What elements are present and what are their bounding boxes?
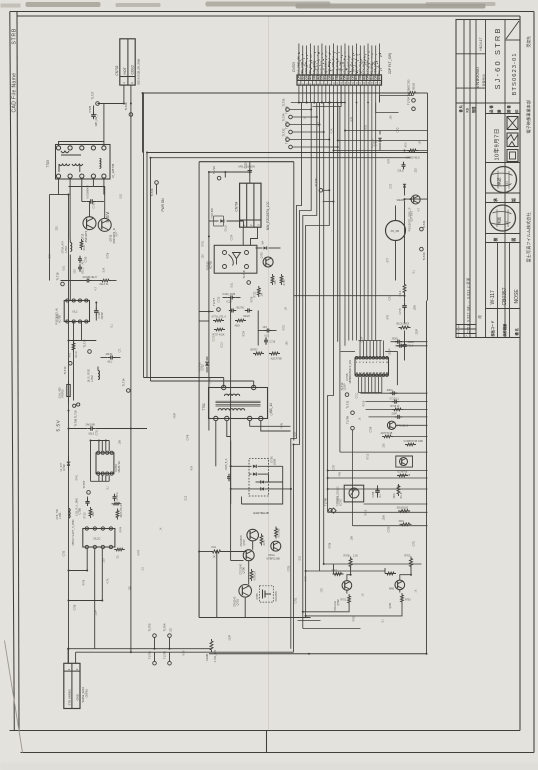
svg-text:10M: 10M <box>351 536 354 541</box>
capacitor C705 <box>87 497 89 500</box>
svg-text:TL7812_2S1813: TL7812_2S1813 <box>337 486 340 504</box>
svg-text:220: 220 <box>415 168 418 173</box>
test point TL707 <box>87 491 91 495</box>
svg-text:R7E: R7E <box>295 431 298 436</box>
fuse P5703 <box>68 381 70 385</box>
svg-text:E41173EL1B: E41173EL1B <box>254 511 269 515</box>
svg-text:C744: C744 <box>271 409 274 415</box>
svg-text:TL718: TL718 <box>242 270 246 278</box>
wires T703 secondary down <box>58 178 60 194</box>
svg-text:400V: 400V <box>281 423 284 429</box>
wire center block bottom <box>198 552 200 618</box>
CN703 pin numbers <box>299 81 382 84</box>
svg-text:M62B73H: M62B73H <box>117 461 121 473</box>
junction dots various <box>208 311 210 313</box>
svg-text:C723: C723 <box>218 296 221 302</box>
title block check stamp square 3 <box>507 150 518 162</box>
svg-text:TL727: TL727 <box>91 91 95 99</box>
svg-text:Y10 M76B: Y10 M76B <box>397 472 408 474</box>
svg-text:MW_250/300V: MW_250/300V <box>239 166 256 169</box>
svg-text:MA: MA <box>262 241 265 245</box>
wire IC706 loop right <box>385 352 397 386</box>
capacitor C730 <box>78 256 82 264</box>
row resistors A77H <box>213 319 224 322</box>
svg-text:A01/89 IELH: A01/89 IELH <box>83 276 97 279</box>
resistor R pair cell2 <box>410 557 413 569</box>
transistor Q706 <box>243 550 254 561</box>
svg-text:TL715: TL715 <box>83 339 87 347</box>
output cell 2 <box>384 568 386 574</box>
svg-text:NW_FZ02974_100: NW_FZ02974_100 <box>266 202 270 231</box>
row R727 <box>214 328 225 331</box>
CN703 strip top row marks <box>297 74 382 79</box>
svg-text:C714: C714 <box>361 336 364 342</box>
svg-text:TL709: TL709 <box>346 416 350 424</box>
svg-text:CN701: CN701 <box>85 689 89 698</box>
wires inside center block <box>230 298 232 552</box>
svg-text:0.033B R71B 100K: 0.033B R71B 100K <box>404 441 424 443</box>
paper edge bottom-left diagonal <box>5 641 23 753</box>
svg-text:1K: 1K <box>359 417 362 420</box>
svg-text:TL732: TL732 <box>282 128 286 136</box>
svg-text:220P: 220P <box>416 329 419 335</box>
test point TL711 <box>351 411 355 415</box>
svg-text:T701: T701 <box>202 403 206 410</box>
svg-text:C703: C703 <box>288 565 291 571</box>
resistor R701 <box>72 341 75 352</box>
wire Q704 emitter down <box>306 604 402 616</box>
svg-text:1: 1 <box>458 334 460 338</box>
svg-text:TL707: TL707 <box>82 480 86 488</box>
svg-text:100K: 100K <box>383 515 386 521</box>
assorted value labels for scan density <box>49 115 422 656</box>
wires CN704 pins down <box>242 227 244 245</box>
wire CN701 pin1 up <box>67 649 69 664</box>
svg-text:EN80060: EN80060 <box>475 67 480 89</box>
svg-text:60L3: 60L3 <box>89 433 95 436</box>
svg-text:16_R_PE30: 16_R_PE30 <box>88 368 91 382</box>
transistor Q711 <box>387 421 395 429</box>
bridge diodes <box>231 465 252 467</box>
svg-text:DTA114E: DTA114E <box>334 601 337 611</box>
wire T703 top to CN702 <box>59 142 104 146</box>
svg-text:1N4B_B_A: 1N4B_B_A <box>225 458 228 470</box>
capacitor C708 <box>377 485 379 488</box>
svg-text:2200P: 2200P <box>344 383 347 390</box>
zener pair row y150 <box>407 149 418 152</box>
capacitors column right mid2 <box>361 392 428 394</box>
test point TL721 <box>420 227 424 231</box>
diode D704 cell <box>209 220 219 222</box>
svg-text:CP3A_470: CP3A_470 <box>61 240 65 253</box>
svg-text:C1B_730: C1B_730 <box>56 508 59 519</box>
capacitor C726 <box>95 303 97 309</box>
svg-text:R70B: R70B <box>344 555 350 558</box>
inductor L702 <box>97 367 99 371</box>
rectifier left rail <box>230 441 232 505</box>
svg-text:470P: 470P <box>174 413 177 419</box>
svg-text:M4B: M4B <box>389 588 394 591</box>
svg-text:1000P: 1000P <box>389 348 392 355</box>
svg-text:4.7K: 4.7K <box>331 128 334 133</box>
svg-text:3.3K: 3.3K <box>103 267 106 272</box>
test points TL708 TL710 <box>73 404 76 407</box>
svg-text:[MW]: [MW] <box>273 459 276 465</box>
svg-text:C7Q: C7Q <box>397 127 400 132</box>
connector CN702 <box>120 39 135 85</box>
svg-text:ALE R73B: ALE R73B <box>271 358 283 361</box>
svg-text:C736: C736 <box>74 604 77 610</box>
svg-text:LED_CHG_3: LED_CHG_3 <box>335 58 339 74</box>
resistor R722 <box>257 286 260 297</box>
svg-text:M51977LAPY_S_BM0: M51977LAPY_S_BM0 <box>71 519 75 546</box>
svg-text:0.22: 0.22 <box>185 495 188 500</box>
resistor R709 <box>346 590 348 593</box>
wire bundle bottom bends <box>303 628 361 630</box>
bottom rail main <box>209 653 427 655</box>
transistor Q710 pair <box>396 456 413 467</box>
transistor Q702 <box>342 581 352 591</box>
diode pair D710 <box>403 184 406 187</box>
diode D713 <box>256 247 263 249</box>
test point TL714 <box>127 389 131 393</box>
row TL717 TL716 <box>217 308 221 312</box>
transformer T703 <box>56 145 111 180</box>
svg-text:F1_0P7: F1_0P7 <box>60 462 63 471</box>
svg-text:220: 220 <box>56 226 59 231</box>
svg-text:1000P: 1000P <box>100 312 104 320</box>
title block bottom field dividers <box>497 243 499 338</box>
svg-text:R721: R721 <box>283 324 286 330</box>
capacitor col y345 <box>402 342 407 350</box>
svg-text:C739: C739 <box>92 202 96 209</box>
svg-text:1T0: 1T0 <box>321 588 324 593</box>
wire right rail <box>427 93 429 301</box>
svg-text:電子映像事業本部: 電子映像事業本部 <box>525 100 532 134</box>
svg-text:0.33_R_K_1600: 0.33_R_K_1600 <box>76 497 79 516</box>
svg-text:STRB: STRB <box>11 28 17 45</box>
svg-text:図: 図 <box>511 238 516 242</box>
svg-text:GND: GND <box>75 694 79 700</box>
wire CN702 pin2 rail down <box>130 85 132 652</box>
svg-text:R718 1K: R718 1K <box>391 406 400 408</box>
bundle staircase wire L2 <box>294 103 312 653</box>
test point TL729 mid bundle <box>319 189 323 193</box>
frame outer bottom <box>21 752 535 754</box>
svg-text:C71B: C71B <box>399 308 402 314</box>
svg-text:10M: 10M <box>119 440 122 445</box>
connector CN703 strip <box>297 75 382 85</box>
title block round approval stamp 2 <box>490 205 516 231</box>
svg-text:B9702: B9702 <box>251 349 259 352</box>
svg-text:W-117: W-117 <box>490 290 496 304</box>
svg-text:220: 220 <box>74 269 77 274</box>
wire pair mid horizontals <box>147 152 428 154</box>
test point TL722 <box>217 176 221 180</box>
svg-text:R713: R713 <box>367 453 370 459</box>
bundle wire L6 <box>323 103 325 565</box>
svg-text:R70C: R70C <box>405 555 411 558</box>
svg-text:A076 5C1B: A076 5C1B <box>381 432 393 435</box>
node junction top wire <box>142 92 144 94</box>
xenon tube circle <box>386 221 406 241</box>
svg-text:Q705: Q705 <box>256 593 259 600</box>
svg-text:R70A 1A: R70A 1A <box>254 571 257 581</box>
svg-text:SW_COM_1: SW_COM_1 <box>300 58 304 74</box>
wires Q cluster <box>216 552 218 618</box>
diode symbol near bundle <box>331 508 336 513</box>
svg-text:R7K: R7K <box>57 313 60 318</box>
wires below IC701 <box>86 549 88 571</box>
svg-text:1M: 1M <box>261 293 264 296</box>
svg-text:C702: C702 <box>295 597 298 603</box>
resistor B9702 row <box>253 352 264 355</box>
title block check stamp square 2 <box>507 133 518 147</box>
svg-text:R7R: R7R <box>388 158 391 163</box>
resistor R top right <box>407 92 418 95</box>
photocoupler IC702 <box>214 245 257 273</box>
svg-text:T703: T703 <box>46 160 50 167</box>
svg-text:IC13: IC13 <box>221 342 224 348</box>
svg-text:R731: R731 <box>202 240 205 246</box>
output cell 1 box <box>333 564 335 574</box>
svg-text:1M: 1M <box>285 307 288 310</box>
junction dots on CN703 stubs <box>298 102 300 104</box>
svg-text:R701: R701 <box>341 600 347 602</box>
svg-text:TL729: TL729 <box>314 178 318 186</box>
resistor R711 <box>199 551 210 553</box>
svg-text:2SK2605: 2SK2605 <box>275 591 278 602</box>
svg-text:TL704: TL704 <box>163 623 167 631</box>
svg-text:0.033_3935: 0.033_3935 <box>223 293 236 296</box>
capacitor C715b <box>264 337 268 345</box>
svg-text:6EL3: 6EL3 <box>82 267 85 273</box>
bundle wires to IC706 <box>348 103 350 341</box>
bundle staircase wire L4 <box>306 103 330 618</box>
svg-text:DATA_FLT: DATA_FLT <box>319 61 323 74</box>
svg-text:1K: 1K <box>304 116 307 119</box>
svg-text:10K: 10K <box>390 115 393 120</box>
bundle wire L9 <box>340 85 341 452</box>
svg-text:AE'U: AE'U <box>405 142 408 148</box>
wire top rail down from CN702 junction <box>142 93 144 153</box>
test points TL723 TL724 <box>412 99 416 103</box>
svg-text:承認: 承認 <box>496 178 502 186</box>
svg-text:C733: C733 <box>63 550 66 556</box>
svg-text:認: 認 <box>511 198 516 202</box>
svg-text:R744: R744 <box>120 526 123 532</box>
wire bundle below CN703 <box>298 85 300 102</box>
svg-text:SEL_DATA: SEL_DATA <box>312 60 316 74</box>
svg-text:D703: D703 <box>202 364 205 371</box>
title block row lines stamp columns <box>486 113 521 115</box>
wire third vertical <box>143 93 145 378</box>
svg-text:B1C8 2AEX: B1C8 2AEX <box>397 323 410 326</box>
svg-text:0.047: 0.047 <box>209 377 212 384</box>
svg-text:受渡先: 受渡先 <box>526 36 531 48</box>
resistor R712 <box>275 527 278 539</box>
svg-text:TLP620: TLP620 <box>206 261 210 271</box>
svg-text:TL724: TL724 <box>407 97 411 105</box>
svg-text:C708: C708 <box>372 491 375 497</box>
svg-text:2.5A_429: 2.5A_429 <box>58 387 62 399</box>
svg-text:I0L2C: I0L2C <box>94 537 101 541</box>
svg-text:C7N: C7N <box>317 121 320 126</box>
svg-text:SEG_DAT_1: SEG_DAT_1 <box>342 58 346 74</box>
title block row lines narrow columns <box>456 53 486 55</box>
svg-text:LP4131B_0: LP4131B_0 <box>396 426 409 428</box>
svg-text:CB0357: CB0357 <box>502 287 508 305</box>
svg-text:A77H_L7B_4: A77H_L7B_4 <box>212 316 227 319</box>
row R71 X1 <box>397 474 408 477</box>
transistor Q704 <box>395 580 405 590</box>
resistor right of Q707 <box>260 534 263 546</box>
svg-text:C717: C717 <box>213 335 216 341</box>
svg-text:1M0: 1M0 <box>92 511 95 516</box>
svg-text:C713 0.1: C713 0.1 <box>390 398 400 400</box>
wire bottom horizontal 648 <box>69 648 212 650</box>
svg-text:R707: R707 <box>332 569 338 572</box>
svg-text:C748: C748 <box>187 434 190 440</box>
long wire y295 block to right column <box>294 295 405 297</box>
svg-text:TL714: TL714 <box>122 378 126 386</box>
resistor R713 <box>89 507 92 518</box>
title block outline <box>456 20 520 338</box>
resistor R707 <box>333 573 344 576</box>
svg-text:C707: C707 <box>333 464 336 470</box>
test point circles left of bundle <box>286 108 290 112</box>
svg-text:TL708: TL708 <box>324 498 328 506</box>
svg-text:PM01BEPT_100RL1P: PM01BEPT_100RL1P <box>409 207 412 231</box>
row 0.033B R71B <box>405 443 416 446</box>
wire row C719 <box>61 280 85 282</box>
resistor col y327 <box>399 326 411 329</box>
svg-text:番 丸: 番 丸 <box>458 104 463 113</box>
svg-text:管理: 管理 <box>471 106 476 113</box>
svg-text:C711: C711 <box>356 392 359 398</box>
svg-text:BN: BN <box>377 75 381 79</box>
capacitor col y306 <box>402 303 407 311</box>
svg-text:C0LD: C0LD <box>398 170 404 173</box>
svg-text:22P FLT_SW|: 22P FLT_SW| <box>388 53 392 74</box>
test point TL719 <box>61 282 65 286</box>
test point TL720 <box>420 247 424 251</box>
CN703 label band texture ticks <box>298 52 382 73</box>
svg-text:M7BP1130B: M7BP1130B <box>267 557 281 560</box>
svg-text:X001: X001 <box>399 521 405 523</box>
svg-text:富士写真フイルム株式会社: 富士写真フイルム株式会社 <box>525 212 532 262</box>
svg-text:機 名: 機 名 <box>514 328 519 335</box>
test point TL712 <box>345 393 349 397</box>
svg-text:R741: R741 <box>76 474 79 480</box>
svg-text:1K: 1K <box>362 593 365 596</box>
resistor R col y288 <box>403 283 406 295</box>
svg-text:C0LB: C0LB <box>225 225 228 232</box>
svg-text:R747: R747 <box>138 549 141 555</box>
svg-text:IC706: IC706 <box>345 373 349 380</box>
svg-text:0.01: 0.01 <box>299 555 302 560</box>
svg-text:20K: 20K <box>274 280 277 285</box>
IC705 regulator <box>64 301 89 322</box>
svg-text:10P_CH_F: 10P_CH_F <box>94 113 98 126</box>
svg-text:1.75A_429: 1.75A_429 <box>213 649 217 662</box>
svg-text:5.5V: 5.5V <box>56 419 62 431</box>
wire horizontals y563 y570 <box>324 563 422 565</box>
resistor R717 <box>382 435 393 438</box>
svg-text:CN704: CN704 <box>235 201 239 211</box>
svg-text:品 番: 品 番 <box>489 105 494 113</box>
bundle wire L5 <box>319 103 321 572</box>
connector CN703 pin dividers <box>300 75 302 85</box>
svg-text:R722: R722 <box>254 291 257 298</box>
bundle jog horizontals <box>299 102 345 104</box>
capacitor C725 <box>93 106 95 113</box>
svg-text:CAD File Name: CAD File Name <box>11 73 17 113</box>
IC707 regulator box <box>344 485 364 502</box>
svg-text:COLD: COLD <box>131 65 135 75</box>
svg-text:TL717: TL717 <box>212 298 216 306</box>
test point TL727 <box>96 102 100 106</box>
svg-text:0.01: 0.01 <box>231 282 234 287</box>
svg-text:0.01: 0.01 <box>265 335 270 338</box>
resistor R716 <box>397 484 400 496</box>
test point TL715 <box>88 350 92 354</box>
svg-text:C0L3: C0L3 <box>399 290 402 296</box>
junction dots bundle <box>298 102 300 104</box>
svg-text:R703: R703 <box>405 600 411 602</box>
svg-text:100K: 100K <box>414 305 417 311</box>
svg-text:R7M: R7M <box>183 650 186 655</box>
svg-text:K01: K01 <box>212 546 217 549</box>
svg-text:M0B73A: M0B73A <box>199 362 202 372</box>
svg-text:22K: 22K <box>383 443 386 448</box>
svg-text:C730: C730 <box>85 256 88 262</box>
svg-text:B1LB: B1LB <box>400 492 403 498</box>
svg-text:R_125745: R_125745 <box>111 163 115 177</box>
svg-text:A7/B: A7/B <box>263 540 266 546</box>
FET Q705 dashed <box>260 586 274 602</box>
svg-text:試作図番: 試作図番 <box>502 323 507 337</box>
svg-text:10K: 10K <box>202 254 205 259</box>
svg-text:J0001: J0001 <box>387 390 394 392</box>
bundle staircase wire L1 <box>291 103 302 649</box>
svg-text:STB UNREG: STB UNREG <box>67 689 71 705</box>
wire left rail <box>50 194 59 196</box>
svg-text:検図: 検図 <box>496 217 502 225</box>
svg-text:HOT: HOT <box>123 67 127 74</box>
svg-text:R01: R01 <box>69 352 72 357</box>
svg-text:Q703: Q703 <box>261 252 264 259</box>
svg-text:47M: 47M <box>339 472 342 477</box>
bridge loop wires <box>242 466 283 504</box>
bundle staircase wire L7 <box>328 103 334 513</box>
svg-text:R720: R720 <box>283 279 286 286</box>
connector CN701 <box>64 663 80 708</box>
wires to T701 primary <box>144 377 224 379</box>
rectifier bridge D701 dashed box <box>249 459 269 497</box>
transistor Q708 small <box>271 541 281 551</box>
wire lower left rail stubs <box>68 570 70 572</box>
svg-text:IC13: IC13 <box>227 301 233 304</box>
fuse F701 <box>210 639 213 652</box>
svg-text:R706: R706 <box>329 542 332 548</box>
svg-text:VSS_GND: VSS_GND <box>373 61 377 74</box>
test point TL718 <box>247 281 251 285</box>
svg-text:2SD26RB: 2SD26RB <box>240 535 243 546</box>
svg-text:NOSE: NOSE <box>514 289 520 304</box>
test point TL709 <box>351 426 355 430</box>
svg-text:R713: R713 <box>84 512 87 519</box>
